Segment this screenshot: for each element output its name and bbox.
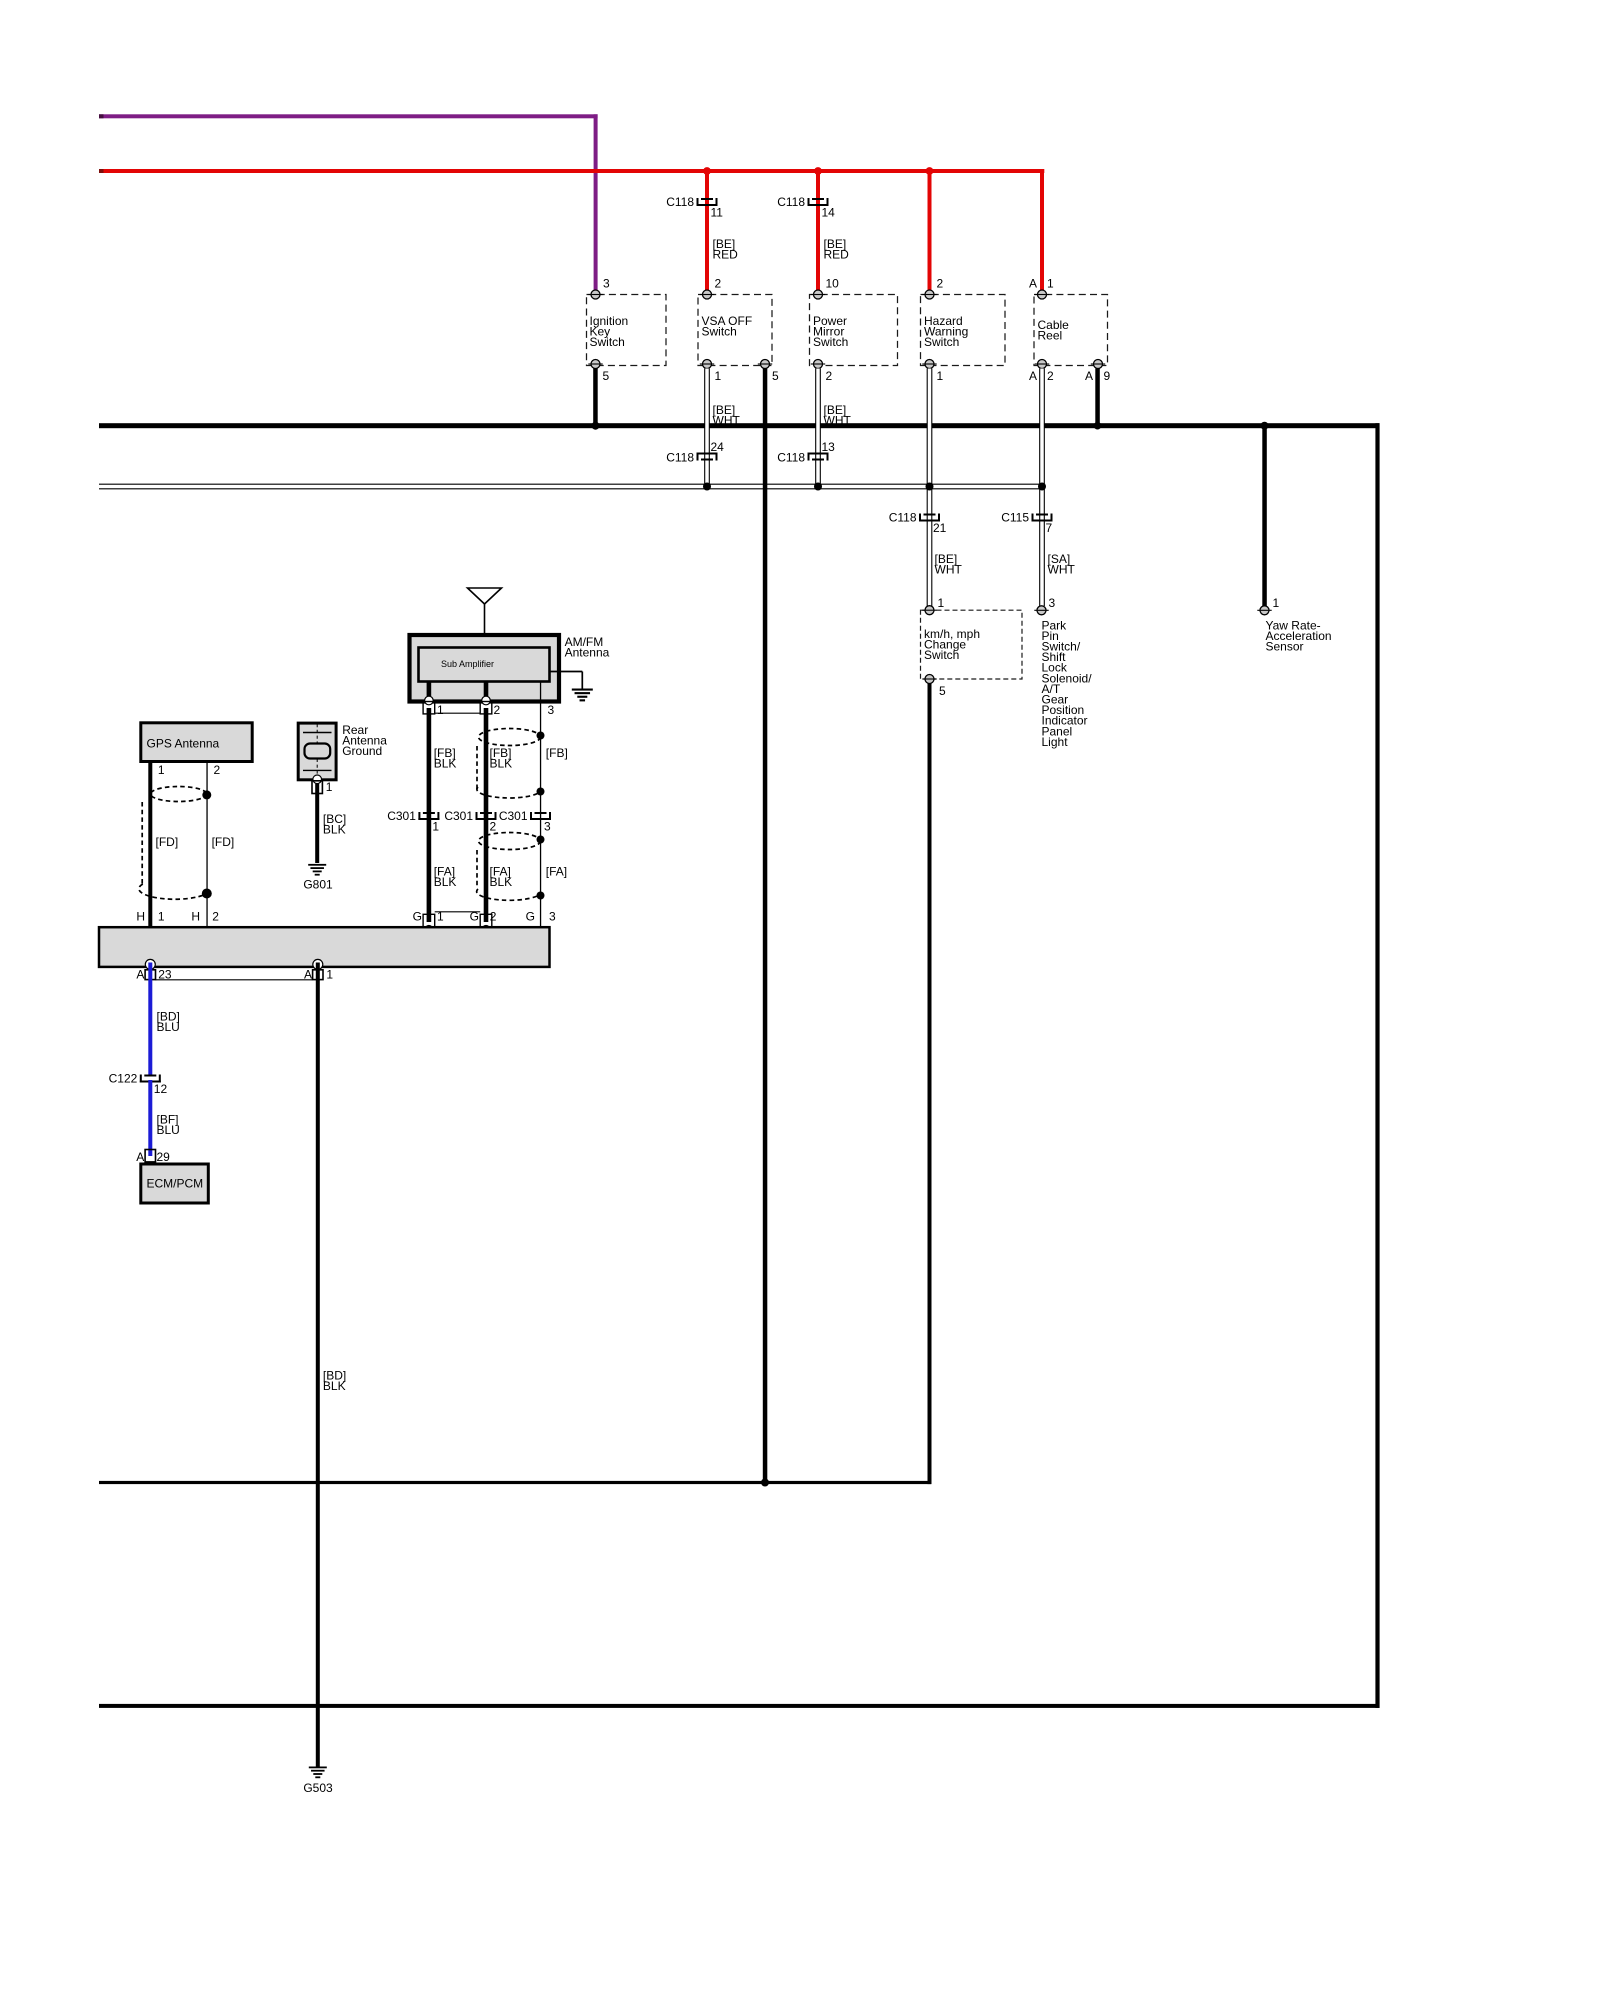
wire: red [BE] RED feed, horizontal: [99, 169, 1044, 173]
wire: [FB]/[FA] BLK shield drain 1 (sub amp pin 1): [427, 708, 432, 922]
svg-text:Antenna: Antenna: [565, 645, 610, 659]
label: [FD] (wire 1): [156, 835, 179, 849]
component: VSA OFF Switch: [698, 276, 779, 383]
svg-text:[FA]: [FA]: [546, 865, 567, 879]
connector C301 pin 3: [499, 809, 551, 834]
svg-text:2: 2: [490, 909, 497, 923]
wire: ignition key switch pin 5 to ground bus: [593, 369, 598, 426]
svg-text:5: 5: [603, 369, 610, 383]
label: [BC] BLK: [323, 812, 346, 837]
svg-text:C115: C115: [1001, 510, 1029, 524]
component: Yaw Rate-Acceleration Sensor pin 1: [1257, 596, 1331, 654]
svg-text:G: G: [526, 909, 535, 923]
svg-text:[FD]: [FD]: [212, 835, 235, 849]
wire: white [BE] WHT from power mirror pin 2: [816, 369, 821, 489]
sub amplifier pins 1,2,3 (connector row): [423, 682, 554, 717]
svg-text:3: 3: [549, 909, 556, 923]
svg-text:2: 2: [715, 276, 722, 290]
svg-text:C301: C301: [444, 809, 473, 823]
connector C115 pin 7: [1001, 510, 1052, 535]
svg-text:BLU: BLU: [157, 1020, 180, 1034]
wire: black bottom horizontal (ground return): [99, 1704, 1380, 1708]
junction: hazard white wire / white bus: [926, 483, 934, 491]
shield: [FD] loop around GPS wires: [139, 787, 212, 900]
svg-text:BLK: BLK: [323, 1379, 346, 1393]
pin A23 (bus bar to ECM/PCM): [136, 959, 171, 981]
svg-text:1: 1: [938, 596, 945, 610]
junction: power mirror white wire / white bus: [814, 483, 822, 491]
labels: bus bar pins H1, H2: [136, 909, 219, 923]
svg-text:3: 3: [1049, 596, 1056, 610]
label: [BD] BLK: [323, 1369, 346, 1394]
wire: white signal bus, horizontal: [99, 484, 1044, 489]
svg-text:2: 2: [937, 276, 944, 290]
svg-text:A: A: [1085, 369, 1093, 383]
svg-text:WHT: WHT: [935, 563, 963, 577]
svg-text:A: A: [136, 968, 144, 982]
svg-text:C118: C118: [666, 450, 694, 464]
wire: sub amplifier case to antenna ground: [550, 672, 582, 690]
junction: red feed / power mirror branch: [814, 167, 822, 175]
junction: VSA white wire / white bus: [703, 483, 711, 491]
ground G801: [303, 864, 333, 892]
wire: purple [BE] PUR feed, horizontal: [99, 114, 598, 118]
wire: red drop to C118-11 / VSA OFF switch: [705, 171, 709, 291]
svg-text:1: 1: [326, 780, 333, 794]
svg-text:C118: C118: [666, 195, 694, 209]
wire: antenna core wire 3 (thin): [540, 700, 541, 928]
svg-text:RED: RED: [824, 248, 850, 262]
svg-text:GPS Antenna: GPS Antenna: [147, 737, 220, 751]
svg-text:G801: G801: [303, 878, 333, 892]
svg-text:Reel: Reel: [1038, 328, 1063, 342]
svg-text:A: A: [1029, 276, 1037, 290]
svg-text:11: 11: [711, 206, 724, 220]
svg-text:5: 5: [772, 369, 779, 383]
component: Ignition Key Switch: [587, 276, 667, 383]
svg-text:Switch: Switch: [924, 648, 959, 662]
wire: red drop to hazard warning switch: [928, 171, 932, 291]
label: [FD] (wire 2): [212, 835, 235, 849]
component: Sub Amplifier (inner box): [419, 648, 550, 682]
component: Power Mirror Switch: [810, 276, 898, 383]
wire: black ground bus, horizontal: [99, 423, 1380, 428]
connector C118 pin 11: [666, 195, 723, 220]
svg-text:C118: C118: [889, 510, 917, 524]
svg-text:A: A: [1029, 369, 1037, 383]
svg-text:5: 5: [939, 684, 946, 698]
svg-text:1: 1: [437, 703, 444, 717]
svg-text:H: H: [191, 909, 200, 923]
sub amplifier lower pins G1,G2,G3 (connector row into bus bar): [413, 909, 556, 933]
svg-text:3: 3: [544, 820, 551, 834]
svg-text:2: 2: [212, 909, 219, 923]
svg-text:Light: Light: [1042, 735, 1069, 749]
label: [BE] RED (power mirror branch): [824, 237, 850, 262]
link: connector A pins 23-1: [156, 979, 313, 981]
svg-text:BLK: BLK: [434, 875, 457, 889]
component: Cable Reel: [1029, 276, 1111, 383]
svg-text:1: 1: [437, 909, 444, 923]
svg-text:WHT: WHT: [824, 414, 852, 428]
wire: VSA OFF switch pin 5 black (long drop): [763, 369, 768, 1485]
wire: GPS antenna pin 1 (shield drain): [148, 762, 152, 928]
svg-text:Switch: Switch: [924, 335, 959, 349]
svg-text:C122: C122: [109, 1071, 138, 1085]
connector C301 pin 1: [387, 809, 439, 834]
connector C118 pin 14: [777, 195, 835, 220]
svg-text:3: 3: [548, 703, 555, 717]
junction: cable reel A9 / bus: [1094, 422, 1102, 430]
label: [FB] (wire 3): [546, 746, 568, 760]
wire: [BD] BLU from A23 to C122: [148, 963, 152, 1077]
svg-text:1: 1: [937, 369, 944, 383]
component: Park Pin Switch/Shift Lock Solenoid/AT Gear Position Indicator Panel Light, pin 3: [1034, 596, 1092, 749]
ground: AM/FM antenna ground symbol: [572, 689, 593, 702]
connector C301 pin 2: [444, 809, 496, 834]
component: Hazard Warning Switch: [921, 276, 1006, 383]
label: [BF] BLU: [157, 1113, 180, 1138]
wire: [BD] BLK from A1 down to G503: [316, 963, 320, 1767]
label: [SA] WHT (cable reel): [1048, 552, 1076, 577]
connector C118 pin 24: [666, 440, 724, 464]
connector bus bar (gray): [99, 927, 550, 967]
svg-text:Sensor: Sensor: [1266, 640, 1304, 654]
junction: yaw drop / ground bus: [1261, 422, 1269, 430]
wire: [BF] BLU from C122 to ECM/PCM A29: [148, 1080, 152, 1156]
svg-text:1: 1: [326, 968, 333, 982]
wire: white from cable reel pin A2 to park pin switch pin 3: [1040, 369, 1045, 607]
svg-text:2: 2: [490, 820, 497, 834]
label: [FA] BLK (wire 1): [434, 865, 457, 890]
svg-text:2: 2: [214, 763, 221, 777]
svg-text:C301: C301: [387, 809, 416, 823]
svg-text:14: 14: [822, 206, 836, 220]
svg-text:A: A: [136, 1150, 144, 1164]
svg-text:1: 1: [1047, 276, 1054, 290]
svg-text:G: G: [413, 909, 422, 923]
label: [BE] WHT (power mirror): [824, 403, 852, 428]
wire: black right vertical (ground return): [1375, 423, 1379, 1708]
svg-text:21: 21: [933, 521, 947, 535]
svg-text:[FB]: [FB]: [546, 746, 568, 760]
label: [FA] BLK (wire 2): [490, 865, 513, 890]
svg-text:12: 12: [154, 1082, 168, 1096]
svg-text:1: 1: [158, 763, 165, 777]
svg-text:3: 3: [603, 276, 610, 290]
svg-text:7: 7: [1046, 521, 1053, 535]
svg-text:1: 1: [715, 369, 722, 383]
svg-text:BLU: BLU: [157, 1123, 180, 1137]
svg-text:[FD]: [FD]: [156, 835, 179, 849]
svg-text:1: 1: [432, 820, 439, 834]
component: Rear Antenna Ground: [298, 723, 387, 784]
label: [BE] RED (VSA branch): [713, 237, 739, 262]
pin A1 (bus bar, ground lead): [304, 959, 333, 981]
svg-text:2: 2: [1047, 369, 1054, 383]
svg-text:24: 24: [711, 440, 725, 454]
svg-text:BLK: BLK: [434, 757, 457, 771]
wire: km/h switch pin 5 drop: [928, 684, 932, 1485]
label: [BE] WHT (hazard): [935, 552, 963, 577]
wire: white from hazard pin 1 to km/h switch pin 1: [927, 369, 932, 607]
svg-text:BLK: BLK: [490, 875, 513, 889]
wire: yaw sensor drop from ground bus: [1262, 426, 1267, 607]
connector C122 pin 12: [109, 1071, 168, 1096]
wire: black lower-middle horizontal (to km/h switch): [99, 1481, 931, 1484]
svg-text:G: G: [470, 909, 479, 923]
svg-text:2: 2: [494, 703, 501, 717]
svg-text:Ground: Ground: [342, 744, 382, 758]
rear antenna ground pin 1: [312, 780, 333, 794]
svg-text:A: A: [304, 968, 312, 982]
shield: [FB] twisted/shield loop (upper cylinder): [477, 729, 545, 798]
svg-text:WHT: WHT: [713, 414, 741, 428]
label: [FB] BLK (wire 1): [434, 746, 457, 771]
label: [BE] WHT (VSA): [713, 403, 741, 428]
svg-text:1: 1: [158, 909, 165, 923]
svg-text:Switch: Switch: [813, 335, 848, 349]
component: AM/FM Antenna (outer box): [410, 635, 610, 702]
connector C118 pin 13: [777, 440, 835, 464]
wire: red drop to C118-14 / power mirror switch: [816, 171, 820, 291]
svg-text:C301: C301: [499, 809, 528, 823]
svg-text:ECM/PCM: ECM/PCM: [147, 1176, 204, 1190]
svg-text:Switch: Switch: [590, 335, 625, 349]
component: GPS Antenna: [141, 723, 252, 762]
ground G503: [303, 1767, 333, 1796]
svg-text:BLK: BLK: [323, 823, 346, 837]
antenna symbol (AM/FM): [468, 588, 502, 647]
wire: cable reel pin A9 to ground bus: [1095, 369, 1100, 426]
pin A29 (ECM/PCM): [136, 1150, 170, 1171]
junction: cable reel white wire / white bus: [1038, 483, 1046, 491]
wire: red drop to cable reel pin A1: [1040, 169, 1044, 291]
svg-text:BLK: BLK: [490, 757, 513, 771]
svg-text:C118: C118: [777, 450, 805, 464]
junction: red feed / hazard branch: [926, 167, 934, 175]
shield: [FA] twisted/shield loop (lower cylinder): [477, 833, 545, 901]
label: [BD] BLU: [157, 1010, 180, 1035]
svg-text:29: 29: [157, 1150, 171, 1164]
labels: GPS pins 1,2: [158, 763, 221, 777]
component: ECM/PCM: [141, 1164, 209, 1203]
label: [FA] (wire 3): [546, 865, 567, 879]
svg-text:13: 13: [822, 440, 836, 454]
svg-text:2: 2: [826, 369, 833, 383]
svg-text:C118: C118: [777, 195, 805, 209]
connector C118 pin 21: [889, 510, 947, 535]
wire: white [BE] WHT from VSA pin 1: [705, 369, 710, 489]
svg-text:9: 9: [1104, 369, 1111, 383]
svg-text:10: 10: [826, 276, 840, 290]
junction: VSA ground / lower bus wire: [761, 1479, 769, 1487]
wire: [FB]/[FA] BLK shield drain 2 (sub amp pin 2): [484, 708, 489, 922]
component: km/h, mph Change Switch: [921, 596, 1023, 698]
junction: red feed / VSA branch: [703, 167, 711, 175]
wire: purple drop to ignition key switch pin 3: [594, 114, 598, 290]
svg-text:RED: RED: [713, 248, 739, 262]
svg-text:G503: G503: [303, 1781, 333, 1795]
svg-text:Sub Amplifier: Sub Amplifier: [441, 659, 494, 669]
svg-text:H: H: [136, 909, 145, 923]
svg-text:1: 1: [1273, 596, 1280, 610]
svg-text:WHT: WHT: [1048, 563, 1076, 577]
junction: ignition ground / bus: [592, 422, 600, 430]
label: [FB] BLK (wire 2): [490, 746, 513, 771]
wire: GPS antenna pin 2 (core, thin): [206, 762, 207, 928]
svg-text:Switch: Switch: [702, 324, 737, 338]
wire: [BC] BLK to G801: [315, 784, 319, 863]
